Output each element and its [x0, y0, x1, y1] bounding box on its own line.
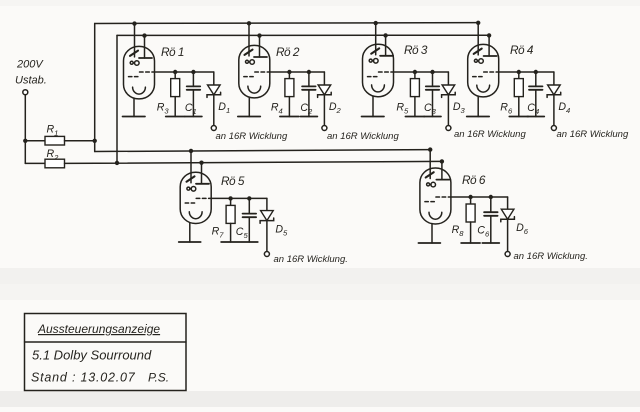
wire C5 to ground — [248, 217, 250, 242]
wire Rö3 left pin from supply bus — [375, 23, 377, 55]
svg-text:R1: R1 — [47, 124, 59, 138]
Rö5 internal electrode tick — [187, 176, 195, 181]
wire Rö4 anode line — [499, 71, 536, 73]
Rö4 heater filament — [477, 85, 490, 92]
wire to diode D3 — [447, 72, 449, 85]
wire Rö1 cathode to ground — [133, 98, 135, 116]
wire to D2 — [309, 71, 325, 73]
wire Rö1 right pin from supply bus — [144, 35, 146, 58]
terminal 200V input — [23, 90, 28, 95]
svg-text:R4: R4 — [271, 102, 283, 116]
wire Rö1 left pin from supply bus — [134, 23, 136, 56]
diode D6 — [501, 209, 515, 222]
wire D5 to output terminal — [266, 221, 268, 252]
ground (R5) — [405, 116, 424, 118]
wire to R1 — [25, 140, 45, 142]
wire C2 to ground — [308, 90, 310, 117]
Rö5 internal pin circles — [187, 187, 196, 192]
wire supply rail down — [24, 95, 26, 164]
svg-text:C5: C5 — [236, 226, 249, 240]
node Rö5 pin on row-2 line 2 — [199, 160, 203, 164]
wire Rö5 cathode to ground — [189, 223, 191, 242]
wire to C6 — [490, 197, 492, 212]
wire to diode D6 — [507, 197, 509, 209]
tube Rö1 envelope — [124, 46, 155, 99]
svg-text:an 16R Wicklung.: an 16R Wicklung. — [514, 251, 588, 262]
wire Rö1 anode line — [155, 71, 194, 73]
svg-text:an 16R Wicklung: an 16R Wicklung — [327, 131, 399, 142]
svg-text:an 16R Wicklung.: an 16R Wicklung. — [274, 254, 348, 265]
ground (R8) — [461, 242, 480, 244]
svg-text:R3: R3 — [157, 102, 170, 116]
svg-text:Rö 4: Rö 4 — [510, 43, 534, 57]
wire to C5 — [248, 198, 250, 213]
Rö1 internal pin circles — [130, 61, 139, 66]
node grid bus junction — [115, 161, 119, 165]
wire D3 to output terminal — [447, 95, 449, 126]
Rö3 anode bar — [380, 55, 393, 57]
wire R1 to node — [65, 140, 95, 142]
Rö1 grid (dashed) — [129, 72, 155, 77]
wire R6 to ground — [518, 97, 520, 117]
wire Rö5 left pin from supply bus — [190, 151, 192, 183]
svg-text:Rö 1: Rö 1 — [161, 45, 184, 59]
wire to C1 — [192, 72, 194, 86]
node Rö2 pin on bus 1 — [247, 21, 251, 25]
wire Rö2 cathode to ground — [248, 97, 250, 116]
svg-text:D5: D5 — [275, 223, 288, 237]
wire Rö5 right pin from supply bus — [201, 163, 203, 184]
resistor R3 — [171, 79, 180, 97]
wire to R8 — [470, 197, 472, 204]
svg-text:C6: C6 — [477, 225, 490, 239]
wire Rö2 anode line — [270, 71, 309, 73]
wire to C3 — [432, 72, 434, 86]
diode D2 — [318, 85, 332, 97]
Rö3 internal electrode tick — [371, 48, 379, 53]
svg-text:R5: R5 — [396, 102, 409, 116]
svg-text:Ustab.: Ustab. — [15, 75, 47, 87]
wire R3 to ground — [174, 97, 176, 117]
node supply split — [23, 139, 27, 143]
diode D4 — [547, 85, 561, 97]
ground (C4) — [527, 116, 544, 118]
Rö2 grid (dashed) — [244, 72, 270, 77]
wire to C2 — [308, 72, 310, 86]
ground (C6) — [482, 242, 499, 244]
wire R8 to ground — [470, 222, 472, 243]
ground (R6) — [509, 116, 528, 118]
svg-text:D4: D4 — [558, 101, 570, 115]
node C3 top junction — [430, 70, 434, 74]
terminal (to 16R winding, D4) — [551, 126, 556, 131]
svg-text:D1: D1 — [218, 101, 230, 115]
wire to D1 — [193, 71, 213, 73]
wire C4 to ground — [535, 90, 537, 117]
wire Rö6 right pin from supply bus — [441, 161, 443, 179]
wire Rö5 anode line — [211, 197, 249, 199]
wire R7 to ground — [230, 223, 232, 242]
resistor R8 — [466, 204, 475, 222]
wire Rö6 anode line — [451, 196, 491, 198]
svg-text:D6: D6 — [516, 222, 529, 236]
wire Rö4 right pin from supply bus — [488, 35, 490, 56]
Rö1 heater filament — [133, 87, 146, 94]
wire Rö6 cathode to ground — [431, 224, 433, 244]
node R6 top junction — [517, 70, 521, 74]
wire to D5 — [249, 197, 267, 199]
svg-text:R7: R7 — [212, 225, 225, 239]
svg-text:an 16R Wicklung: an 16R Wicklung — [557, 129, 629, 140]
Rö3 grid (dashed) — [368, 72, 394, 77]
wire to R2 — [25, 162, 45, 164]
wire D6 to output terminal — [507, 219, 509, 251]
wire to R4 — [288, 72, 290, 79]
Rö4 anode bar — [484, 55, 497, 57]
wire node up to anode bus 1 — [94, 24, 96, 141]
ground (Rö4 cathode) — [467, 116, 490, 118]
Rö4 internal pin circles — [474, 59, 483, 64]
Rö6 grid (dashed) — [425, 197, 451, 202]
tube Rö6 envelope — [420, 168, 451, 224]
Rö3 internal pin circles — [369, 59, 378, 64]
wire Rö3 right pin from supply bus — [385, 35, 387, 56]
Rö4 internal electrode tick — [474, 49, 482, 54]
node C5 top junction — [247, 196, 251, 200]
svg-text:C3: C3 — [424, 102, 437, 116]
node Rö6 pin on row-2 line 1 — [428, 147, 432, 151]
resistor R4 — [285, 79, 294, 97]
svg-text:D3: D3 — [453, 101, 466, 115]
node Rö6 pin on row-2 line 2 — [440, 159, 444, 163]
ground (Rö5 cathode) — [179, 241, 201, 243]
tube Rö3 envelope — [363, 44, 394, 96]
Rö6 internal electrode tick — [426, 172, 434, 177]
wire to diode D1 — [213, 72, 215, 85]
title block divider — [25, 341, 187, 343]
wire Rö3 cathode to ground — [372, 96, 374, 116]
Rö6 anode bar — [436, 179, 449, 181]
wire to R7 — [230, 198, 232, 205]
node Rö1 pin on bus 1 — [132, 21, 136, 25]
svg-text:P.S.: P.S. — [148, 371, 169, 385]
capacitor C1 — [187, 86, 201, 89]
node R4 top junction — [287, 70, 291, 74]
resistor R5 — [410, 79, 419, 97]
wire to R5 — [414, 72, 416, 79]
svg-text:C4: C4 — [527, 102, 539, 116]
Rö4 grid (dashed) — [473, 72, 499, 77]
svg-text:Rö 2: Rö 2 — [276, 45, 300, 59]
terminal (to 16R winding, D6) — [505, 252, 510, 257]
ground (C2) — [300, 116, 317, 118]
node C6 top junction — [489, 195, 493, 199]
node R5 top junction — [413, 70, 417, 74]
ground (Rö2 cathode) — [238, 116, 260, 118]
svg-text:Rö 6: Rö 6 — [462, 173, 486, 187]
Rö5 anode bar — [196, 183, 209, 185]
wire up to grid bus 2 — [116, 35, 118, 162]
wire anode bus 1 (top) — [95, 22, 479, 25]
tube Rö5 envelope — [180, 172, 211, 223]
wire row-2 anode line 1 — [95, 150, 431, 152]
wire C3 to ground — [432, 90, 434, 117]
wire to D6 — [491, 196, 508, 198]
svg-text:an 16R Wicklung: an 16R Wicklung — [216, 131, 288, 142]
tube Rö2 envelope — [239, 45, 270, 98]
wire to R6 — [518, 72, 520, 79]
wire to R3 — [174, 72, 176, 79]
capacitor C5 — [243, 214, 257, 218]
svg-text:R8: R8 — [452, 224, 465, 238]
node Rö4 pin on bus 2 — [487, 33, 491, 37]
svg-text:C1: C1 — [185, 102, 197, 116]
resistor R2 — [45, 159, 65, 168]
Rö5 grid (dashed) — [185, 198, 211, 203]
wire to diode D5 — [266, 198, 268, 210]
node Rö2 pin on bus 2 — [257, 33, 261, 37]
wire Rö6 left pin from supply bus — [429, 150, 431, 179]
node C1 top junction — [191, 70, 195, 74]
node Rö5 pin on row-2 line 1 — [189, 149, 193, 153]
svg-text:D2: D2 — [329, 101, 342, 115]
wire Rö4 cathode to ground — [477, 96, 479, 116]
wire to C4 — [535, 72, 537, 86]
Rö3 heater filament — [372, 85, 385, 92]
capacitor C3 — [426, 86, 439, 89]
node Rö3 pin on bus 2 — [383, 33, 387, 37]
wire to D3 — [433, 71, 449, 73]
ground (C3) — [424, 116, 441, 118]
wire Rö4 left pin from supply bus — [477, 23, 479, 55]
diode D5 — [260, 211, 274, 224]
node R8 top junction — [468, 195, 472, 199]
svg-text:C2: C2 — [300, 102, 313, 116]
tube Rö4 envelope — [468, 44, 499, 97]
resistor R7 — [226, 205, 235, 223]
node R1 output — [93, 139, 97, 143]
wire Rö2 left pin from supply bus — [248, 23, 250, 56]
node Rö4 pin on bus 1 — [476, 21, 480, 25]
svg-text:5.1 Dolby Sourround: 5.1 Dolby Sourround — [32, 348, 152, 363]
diode D1 — [207, 85, 221, 97]
Rö2 heater filament — [248, 86, 261, 93]
capacitor C4 — [529, 86, 543, 89]
wire D2 to output terminal — [323, 95, 325, 126]
node C2 top junction — [307, 70, 311, 74]
Rö2 anode bar — [254, 56, 267, 58]
wire D4 to output terminal — [553, 95, 555, 126]
wire R4 to ground — [288, 97, 290, 117]
ground (R3) — [166, 116, 185, 118]
wire Rö2 right pin from supply bus — [259, 35, 261, 57]
wire C1 to ground — [192, 90, 194, 117]
node Rö1 pin on bus 2 — [142, 33, 146, 37]
node C4 top junction — [534, 70, 538, 74]
wire node down to row-2 feed — [94, 141, 96, 152]
title block frame — [25, 314, 187, 391]
resistor R1 — [45, 136, 65, 145]
Rö2 internal electrode tick — [245, 50, 253, 55]
node Rö3 pin on bus 1 — [374, 21, 378, 25]
wire D1 to output terminal — [213, 95, 215, 126]
ground (C5) — [241, 241, 258, 243]
svg-text:Aussteuerungsanzeige: Aussteuerungsanzeige — [37, 322, 160, 336]
node R3 top junction — [173, 70, 177, 74]
ground (C1) — [185, 116, 202, 118]
wire Rö3 anode line — [394, 71, 433, 73]
resistor R6 — [514, 79, 523, 97]
capacitor C6 — [484, 212, 498, 216]
Rö1 anode bar — [139, 57, 152, 59]
svg-text:200V: 200V — [16, 59, 44, 71]
ground (Rö3 cathode) — [362, 116, 385, 118]
terminal (to 16R winding, D2) — [322, 126, 327, 131]
svg-text:Stand : 13.02.07: Stand : 13.02.07 — [31, 371, 136, 385]
Rö6 internal pin circles — [427, 182, 436, 187]
wire grid bus 2 — [117, 34, 489, 36]
node R7 top junction — [228, 196, 232, 200]
ground (R7) — [221, 241, 240, 243]
wire grid bus from R2 (row-2 line 2) — [65, 161, 443, 163]
wire R5 to ground — [414, 97, 416, 117]
Rö6 heater filament — [429, 212, 442, 219]
svg-text:Rö 3: Rö 3 — [404, 43, 428, 57]
wire C6 to ground — [490, 216, 492, 243]
diode D3 — [442, 85, 456, 97]
svg-text:an 16R Wicklung: an 16R Wicklung — [454, 129, 526, 140]
wire to diode D2 — [323, 72, 325, 85]
wire to diode D4 — [553, 72, 555, 85]
Rö2 internal pin circles — [246, 60, 255, 65]
terminal (to 16R winding, D1) — [211, 126, 216, 131]
Rö1 internal electrode tick — [130, 51, 138, 56]
ground (R4) — [280, 116, 299, 118]
svg-text:Rö 5: Rö 5 — [221, 174, 245, 188]
ground (Rö1 cathode) — [123, 116, 146, 118]
terminal (to 16R winding, D3) — [446, 126, 451, 131]
capacitor C2 — [302, 86, 316, 89]
wire to D4 — [536, 71, 554, 73]
svg-text:R6: R6 — [500, 102, 513, 116]
terminal (to 16R winding, D5) — [264, 252, 269, 257]
ground (Rö6 cathode) — [418, 242, 440, 244]
Rö5 heater filament — [189, 212, 202, 219]
